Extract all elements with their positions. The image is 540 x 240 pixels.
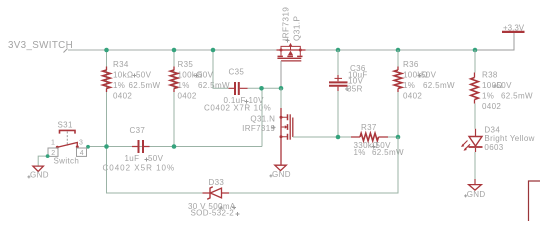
svg-text:35R: 35R	[347, 85, 363, 94]
wire Q31.P gate lead down	[280, 61, 282, 88]
svg-text:0402: 0402	[403, 91, 422, 100]
svg-text:R36: R36	[403, 60, 419, 69]
capacitor C36	[329, 75, 348, 91]
svg-text:Switch: Switch	[54, 157, 80, 166]
net label tick	[64, 49, 68, 53]
wire top rail right segment	[305, 49, 475, 51]
svg-text:62.5mW: 62.5mW	[129, 81, 161, 90]
origin cross D33 rating	[219, 206, 223, 210]
wire R36 column	[397, 50, 399, 137]
switch S31	[48, 130, 87, 156]
origin cross switch gnd	[27, 175, 30, 178]
transistor Q31.N n-channel mosfet	[280, 108, 293, 165]
ground under switch	[33, 166, 44, 171]
resistor R34	[103, 67, 111, 93]
svg-text:50V: 50V	[198, 71, 214, 80]
svg-text:D34: D34	[484, 125, 500, 134]
wire C35 right to gate node	[248, 87, 281, 89]
svg-text:GND: GND	[272, 170, 291, 179]
wire switch pin2 to gnd	[38, 156, 47, 166]
resistor R36	[394, 67, 402, 93]
origin cross R34 voltage	[133, 74, 137, 78]
junction R37 left / C36	[336, 135, 341, 140]
svg-text:50V: 50V	[148, 154, 164, 163]
svg-text:C35: C35	[229, 68, 245, 77]
svg-text:1%: 1%	[403, 81, 415, 90]
svg-text:1: 1	[51, 140, 55, 147]
ground under Q31.N	[275, 165, 287, 170]
wire gate net riser	[261, 88, 263, 146]
wire LED to gnd	[474, 152, 476, 179]
origin cross C35 voltage	[245, 100, 249, 104]
svg-text:0402: 0402	[178, 91, 197, 100]
capacitor C37	[132, 140, 150, 153]
svg-text:62.5mW: 62.5mW	[423, 81, 455, 90]
svg-text:3V3_SWITCH: 3V3_SWITCH	[8, 40, 73, 51]
svg-text:50V: 50V	[421, 71, 437, 80]
supply symbol +3.3V bar	[502, 31, 525, 33]
junction switch pin2	[46, 154, 50, 158]
svg-text:S31: S31	[58, 121, 73, 130]
svg-text:C0402 X5R 10%: C0402 X5R 10%	[103, 163, 176, 172]
svg-text:Q31.P: Q31.P	[291, 16, 301, 41]
origin cross Q31.P	[286, 39, 290, 43]
ground under D34	[469, 185, 482, 191]
junction rail R38	[473, 48, 478, 53]
svg-text:D33: D33	[209, 178, 225, 187]
wire R35 column	[173, 50, 175, 147]
svg-text:1%: 1%	[354, 148, 366, 157]
origin cross R35 voltage	[195, 74, 199, 78]
svg-text:10kΩ: 10kΩ	[113, 71, 133, 80]
junction switch pin4	[86, 145, 90, 149]
wire R38 column	[474, 50, 476, 129]
svg-text:R38: R38	[482, 71, 498, 80]
origin cross Q31.N	[272, 125, 276, 129]
svg-text:GND: GND	[30, 171, 49, 180]
wire C36 bottom lead	[337, 91, 339, 137]
resistor R38	[471, 73, 479, 104]
svg-text:3: 3	[79, 140, 83, 147]
junction gate net drain	[279, 86, 284, 91]
svg-text:62.5mW: 62.5mW	[372, 148, 404, 157]
svg-text:1%: 1%	[113, 81, 125, 90]
svg-text:4: 4	[80, 150, 84, 157]
junction rail C36	[336, 48, 341, 53]
wire top rail left segment	[68, 49, 277, 51]
wire switch row	[88, 146, 262, 148]
junction switch row R35	[172, 144, 177, 149]
svg-text:SOD-532-2: SOD-532-2	[191, 209, 235, 218]
origin cross Q31.N gnd	[269, 174, 272, 177]
wire R37 right stub	[388, 136, 398, 138]
origin cross D33 rating end	[232, 206, 236, 210]
diode D33 zener	[203, 187, 230, 199]
svg-text:R35: R35	[178, 60, 194, 69]
wire C36 top lead	[337, 50, 339, 75]
wire R34 column	[106, 50, 108, 147]
svg-text:R34: R34	[113, 60, 129, 69]
junction switch row R34	[104, 144, 109, 149]
wire supply pin (gray)	[475, 33, 514, 50]
origin cross C37 voltage	[145, 158, 149, 162]
svg-text:C0402 X7R 10%: C0402 X7R 10%	[204, 104, 271, 113]
svg-text:0603: 0603	[484, 143, 503, 152]
svg-text:50V: 50V	[136, 71, 152, 80]
svg-text:C37: C37	[130, 126, 146, 135]
svg-text:1%: 1%	[482, 92, 494, 101]
origin cross D34 gnd	[464, 194, 467, 197]
junction rail R36	[396, 48, 401, 53]
junction rail R34	[104, 48, 109, 53]
svg-text:1%: 1%	[178, 81, 190, 90]
wire R37 left stub	[338, 136, 351, 138]
svg-text:+3.3V: +3.3V	[503, 23, 525, 32]
svg-text:R37: R37	[361, 123, 377, 132]
origin cross R38 voltage	[493, 84, 497, 88]
svg-text:IRF7319: IRF7319	[242, 124, 275, 133]
origin cross C36 esr	[345, 87, 349, 91]
frame corner	[529, 181, 540, 221]
svg-text:GND: GND	[467, 190, 486, 199]
wire bottom loop	[107, 137, 399, 193]
svg-text:1uF: 1uF	[125, 154, 140, 163]
svg-text:0402: 0402	[482, 102, 501, 111]
svg-text:Bright Yellow: Bright Yellow	[484, 134, 534, 143]
junction rail R35	[172, 48, 177, 53]
diode D34 LED	[461, 129, 483, 152]
resistor R35	[170, 67, 178, 93]
origin cross D33 package end	[236, 212, 240, 216]
svg-text:50V: 50V	[497, 81, 513, 90]
origin cross R36 voltage	[418, 74, 422, 78]
svg-text:Q31.N: Q31.N	[250, 114, 275, 123]
svg-text:62.5mW: 62.5mW	[501, 92, 533, 101]
svg-text:IRF7319: IRF7319	[281, 7, 291, 41]
wire Q31.N gate to R37	[293, 136, 338, 138]
junction R37 right / R36	[396, 135, 401, 140]
junction gate net riser	[259, 86, 264, 91]
wire Q31.N drain column	[280, 88, 282, 108]
capacitor C35	[229, 82, 248, 95]
wire LED gnd lead	[474, 179, 476, 185]
svg-text:0402: 0402	[113, 91, 132, 100]
resistor R37	[351, 133, 388, 141]
origin cross R37 voltage	[372, 145, 376, 149]
junction rail C35	[211, 48, 216, 53]
transistor Q31.P p-channel mosfet	[277, 43, 306, 61]
wire C35 drop column	[213, 50, 229, 88]
